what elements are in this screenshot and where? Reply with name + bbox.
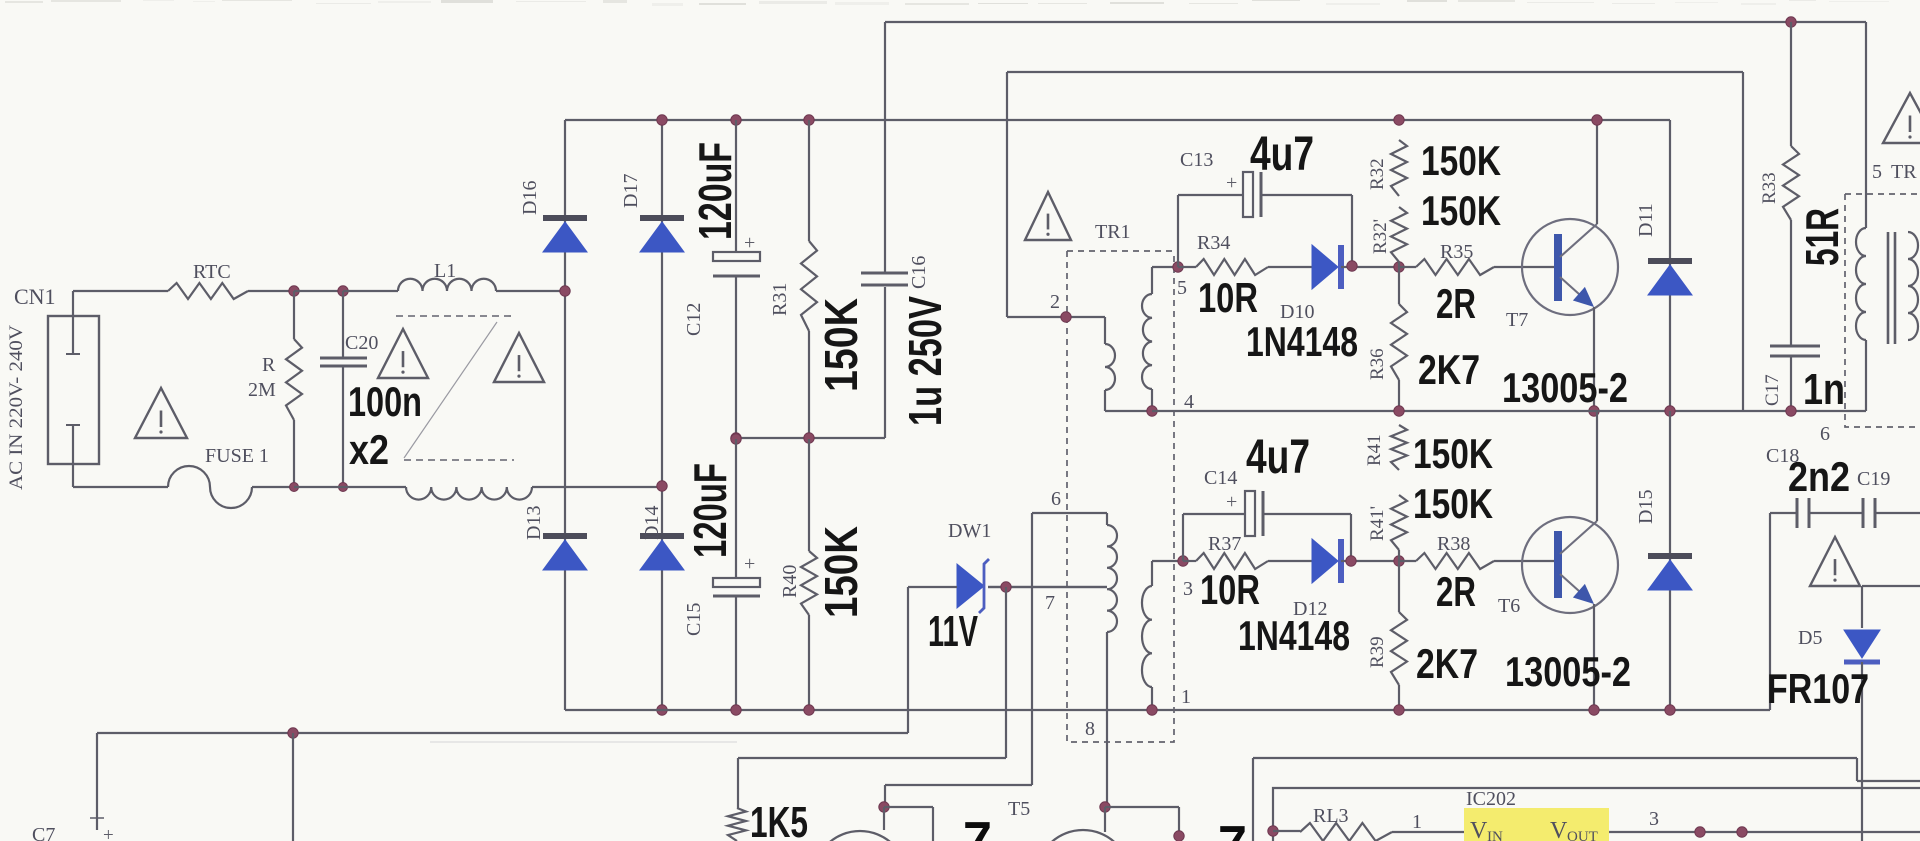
resistor R40 lead: [808, 439, 810, 551]
svg-text:150K: 150K: [1413, 480, 1493, 527]
svg-text:R38: R38: [1437, 533, 1470, 555]
svg-text:2K7: 2K7: [1416, 640, 1478, 687]
svg-text:RTC: RTC: [193, 261, 231, 283]
node pin1: [1147, 705, 1157, 715]
svg-text:13005-2: 13005-2: [1502, 364, 1628, 411]
svg-text:D5: D5: [1798, 627, 1822, 649]
node AC2 bridge: [657, 481, 667, 491]
wire pin7 tap: [988, 586, 1107, 588]
wire TR primary bottom: [1865, 340, 1867, 411]
svg-text:x2: x2: [349, 426, 389, 473]
capacitor C17 lead bottom: [1790, 356, 1792, 411]
resistor R31 lead: [808, 120, 810, 241]
capacitor C19 plates: [1862, 498, 1865, 528]
transistor T4 circle partial: [813, 831, 907, 841]
svg-text:T5: T5: [1008, 798, 1030, 820]
resistor R39: [1391, 612, 1407, 685]
svg-text:7: 7: [963, 812, 992, 841]
wire TR1 pin2: [1007, 316, 1105, 318]
wire pin6: [1032, 512, 1107, 514]
resistor R37: [1196, 553, 1268, 569]
resistor R36 lead: [1398, 267, 1400, 304]
TR primary winding: [1856, 228, 1866, 340]
node R2M bottom: [290, 483, 299, 492]
svg-text:R34: R34: [1197, 232, 1230, 254]
capacitor C14 right lead: [1263, 513, 1351, 515]
wire B upper: [1007, 71, 1743, 73]
svg-text:11V: 11V: [928, 607, 978, 656]
resistor R39 lead: [1398, 561, 1400, 612]
node T7 collector: [1592, 115, 1602, 125]
resistor R34: [1196, 259, 1268, 275]
svg-text:R37: R37: [1208, 533, 1241, 555]
wire DW1 anode: [908, 586, 957, 588]
svg-text:D17: D17: [620, 174, 642, 208]
resistor R33 lead: [1790, 22, 1792, 146]
capacitor C17 plates: [1770, 345, 1820, 348]
wire top bus: [565, 119, 1670, 121]
transistor T7 collector: [1560, 224, 1597, 257]
node base divider upper: [1394, 262, 1404, 272]
wire output top rail: [1253, 757, 1857, 759]
svg-text:1u 250V: 1u 250V: [899, 296, 951, 426]
svg-text:C17: C17: [1762, 374, 1783, 406]
resistor 1K5 lead: [737, 758, 739, 808]
node bottom-left: [288, 728, 298, 738]
node D15 bottom: [1665, 705, 1675, 715]
wire C20 to L1: [343, 290, 398, 292]
svg-text:R32': R32': [1370, 219, 1391, 254]
transformer TR dashed box: [1845, 194, 1920, 427]
transistor T7 circle: [1522, 219, 1618, 315]
CN1 pin 2 stub: [72, 426, 74, 487]
svg-text:R36: R36: [1367, 348, 1388, 380]
svg-text:4u7: 4u7: [1246, 431, 1310, 484]
wire bridge right vertical: [661, 120, 663, 710]
svg-text:2K7: 2K7: [1418, 346, 1480, 393]
wire R41 to R38: [1398, 550, 1400, 561]
node R39 bottom: [1394, 705, 1404, 715]
svg-text:1K5: 1K5: [750, 798, 808, 841]
wire L1 bottom to bridge: [532, 486, 662, 488]
TR1 winding 2-4: [1105, 344, 1115, 390]
svg-text:DW1: DW1: [948, 520, 991, 542]
capacitor C14 left lead: [1182, 514, 1184, 561]
capacitor C16 plates: [861, 272, 908, 275]
node R31 top: [804, 115, 814, 125]
capacitor C16 lead top: [884, 22, 886, 273]
svg-text:4u7: 4u7: [1250, 128, 1314, 181]
svg-text:6: 6: [1051, 488, 1061, 510]
svg-text:C13: C13: [1180, 149, 1213, 171]
svg-text:1N4148: 1N4148: [1238, 612, 1350, 659]
inductor L1 top winding: [398, 279, 496, 291]
node 5 junction: [1173, 262, 1183, 272]
node RL3 left: [1268, 826, 1278, 836]
resistor R40: [801, 551, 817, 615]
node midpoint R36: [1394, 406, 1404, 416]
svg-text:C20: C20: [345, 332, 378, 354]
svg-text:100n: 100n: [348, 378, 422, 425]
svg-text:3: 3: [1649, 808, 1659, 830]
resistor R 2M lead: [293, 291, 295, 339]
wire pin3 jog: [1151, 561, 1153, 586]
wire to L1 bottom: [294, 486, 406, 488]
warning triangle D5: [1810, 537, 1860, 586]
svg-text:+: +: [103, 825, 114, 841]
svg-text:13005-2: 13005-2: [1505, 648, 1631, 695]
wire R32 to R35: [1398, 262, 1400, 267]
wire CN1 bottom to fuse: [73, 486, 168, 488]
warning triangle after C20: [378, 329, 428, 378]
svg-text:2R: 2R: [1436, 568, 1476, 615]
svg-text:AC IN 220V- 240V: AC IN 220V- 240V: [6, 325, 27, 490]
node pin4: [1147, 406, 1157, 416]
wire mid stub down: [292, 733, 294, 841]
diode D5: [1844, 630, 1880, 658]
wire B descender: [1742, 72, 1744, 411]
node pin2: [1061, 312, 1071, 322]
diode D13: [543, 533, 587, 539]
node D17 top: [657, 115, 667, 125]
svg-text:51R: 51R: [1796, 208, 1848, 266]
transistor T7 base bar: [1554, 234, 1562, 301]
resistor R 2M lead bottom: [293, 420, 295, 487]
svg-text:R31: R31: [769, 283, 791, 316]
svg-text:+: +: [1226, 491, 1237, 513]
svg-text:1n: 1n: [1803, 365, 1845, 414]
wire A down to TR: [1865, 22, 1867, 228]
TR1 winding 6-8: [1107, 525, 1117, 632]
svg-text:C19: C19: [1857, 468, 1890, 490]
wire IC out: [1609, 831, 1920, 833]
svg-text:1: 1: [1181, 686, 1191, 708]
svg-text:D13: D13: [523, 506, 545, 540]
svg-text:120uF: 120uF: [684, 463, 736, 558]
wire RTC to node: [248, 290, 294, 292]
resistor RL3: [1300, 823, 1392, 841]
svg-text:D14: D14: [641, 506, 663, 540]
node D14 bottom: [657, 705, 667, 715]
wire A top rail: [885, 21, 1866, 23]
svg-text:5: 5: [1177, 277, 1187, 299]
svg-text:150K: 150K: [1413, 430, 1493, 477]
svg-text:OUT: OUT: [1567, 829, 1598, 841]
svg-text:120uF: 120uF: [689, 142, 741, 240]
capacitor C15 lead bottom: [735, 596, 737, 710]
wire D5 top: [1862, 585, 1920, 587]
wire DW1 left drop: [907, 587, 909, 733]
node C12 bottom: [731, 433, 741, 443]
svg-text:4: 4: [1184, 391, 1194, 413]
diode D17: [640, 215, 684, 221]
inductor L1 bottom winding: [406, 487, 532, 500]
TR1 winding 5-4: [1142, 294, 1152, 389]
wire left stub down: [96, 733, 98, 830]
x2 dashed mark lower: [404, 459, 514, 461]
TR1 winding 3-1: [1142, 586, 1152, 687]
svg-text:10R: 10R: [1198, 274, 1258, 321]
TR secondary winding: [1908, 232, 1918, 340]
wire D10 to node: [1341, 266, 1399, 268]
x2 diagonal mark: [404, 322, 497, 458]
wire pin2 jog: [1104, 317, 1106, 344]
node C15 top: [731, 434, 741, 444]
svg-text:R32: R32: [1367, 158, 1388, 190]
wire R37 to D12: [1268, 560, 1312, 562]
wire C18 rail: [1770, 512, 1796, 514]
svg-text:C15: C15: [683, 603, 705, 636]
resistor 1K5: [728, 808, 746, 841]
diode D16: [543, 215, 587, 221]
capacitor C14 plates: [1245, 491, 1255, 536]
resistor R35: [1416, 259, 1494, 275]
svg-text:C14: C14: [1204, 467, 1237, 489]
svg-text:7: 7: [1045, 592, 1055, 614]
svg-text:5: 5: [1872, 161, 1882, 183]
capacitor C15 lead: [735, 439, 737, 578]
svg-text:R35: R35: [1440, 241, 1473, 263]
warning triangle top right: [1883, 93, 1920, 143]
warning triangle 2 after C20: [494, 333, 544, 382]
resistor R32b: [1391, 207, 1407, 262]
IC202 yellow body: [1464, 808, 1609, 841]
node T4 collector: [879, 802, 889, 812]
capacitor C13 plates: [1243, 172, 1253, 217]
wire T4 right step: [884, 806, 933, 808]
capacitor C12 plates: [713, 252, 760, 261]
resistor R34 lead: [1178, 266, 1196, 268]
node out 2: [1737, 827, 1747, 837]
node C15 bottom: [731, 705, 741, 715]
diode D12: [1312, 539, 1338, 583]
wire node to C20 top: [294, 290, 343, 292]
svg-text:3: 3: [1183, 578, 1193, 600]
svg-text:D11: D11: [1635, 203, 1657, 237]
diode D15: [1648, 553, 1692, 559]
svg-text:2R: 2R: [1436, 280, 1476, 327]
resistor R38: [1416, 553, 1494, 569]
svg-text:C12: C12: [683, 303, 705, 336]
resistor R36: [1391, 304, 1407, 380]
svg-text:1N4148: 1N4148: [1246, 318, 1358, 365]
svg-text:1: 1: [1412, 811, 1422, 833]
svg-text:2: 2: [1050, 291, 1060, 313]
resistor R40 lead bottom: [808, 615, 810, 710]
svg-text:L1: L1: [434, 260, 456, 282]
svg-text:2M: 2M: [248, 379, 276, 401]
svg-text:C7: C7: [32, 824, 55, 841]
svg-text:FUSE 1: FUSE 1: [205, 445, 269, 467]
CN1 pin 1 stub: [72, 291, 74, 353]
transistor T6 emitter: [1560, 574, 1589, 600]
zener DW1: [957, 564, 984, 608]
capacitor C15 plates: [713, 578, 760, 587]
node AC1-R junction: [289, 286, 299, 296]
resistor R36 lead bottom: [1398, 380, 1400, 411]
svg-text:2n2: 2n2: [1788, 453, 1850, 500]
svg-text:R: R: [262, 354, 276, 376]
svg-text:T6: T6: [1498, 595, 1520, 617]
wire T5 stub: [1104, 807, 1106, 832]
node base divider lower: [1394, 556, 1404, 566]
wire C18-C19: [1809, 512, 1862, 514]
node D12 cathode: [1346, 556, 1356, 566]
node T5 right: [1174, 831, 1184, 841]
node C20 bottom: [339, 483, 348, 492]
svg-text:TR1: TR1: [1095, 221, 1131, 243]
wire R38 to T6 base: [1494, 560, 1554, 562]
node 3 junction: [1178, 556, 1188, 566]
capacitor C13 left lead: [1177, 195, 1179, 267]
capacitor C12 lead: [735, 120, 737, 252]
node R32 top: [1394, 115, 1404, 125]
svg-text:V: V: [1470, 818, 1488, 841]
node T6 emitter: [1589, 705, 1599, 715]
transistor T6 base bar: [1554, 531, 1562, 598]
wire midrail up to C16: [884, 287, 886, 438]
wire pin1: [1151, 687, 1153, 710]
node C12 top: [731, 115, 741, 125]
node R40 bottom: [804, 705, 814, 715]
resistor R39 lead bottom: [1398, 685, 1400, 710]
transistor T7 emitter: [1560, 277, 1589, 303]
svg-text:R40: R40: [779, 565, 801, 598]
diode D11: [1648, 258, 1692, 264]
capacitor C17 lead: [1790, 220, 1792, 345]
node out 1: [1695, 827, 1705, 837]
svg-text:RL3: RL3: [1313, 805, 1349, 827]
svg-text:D15: D15: [1635, 490, 1657, 524]
wire D5 bottom: [1861, 662, 1863, 841]
wire winding2 bottom: [1104, 390, 1106, 411]
svg-text:10R: 10R: [1200, 566, 1260, 613]
connector CN1 body: [48, 316, 99, 464]
svg-text:IC202: IC202: [1466, 788, 1516, 810]
transistor T6 collector: [1560, 521, 1597, 554]
capacitor C20 bottom lead: [342, 367, 344, 487]
svg-text:R39: R39: [1367, 636, 1388, 668]
wire half-bridge midpoint: [1152, 410, 1866, 412]
diode D11 wire: [1669, 120, 1671, 411]
wire mid rail: [736, 437, 885, 439]
capacitor C20 top lead: [342, 291, 344, 357]
node C20 top: [338, 286, 348, 296]
wire bottom bus: [565, 709, 1770, 711]
resistor RTC: [168, 283, 248, 299]
svg-text:+: +: [744, 232, 755, 254]
capacitor C13 right lead: [1261, 194, 1352, 196]
capacitor C18 plates: [1796, 498, 1799, 528]
wire C18 drop to bus: [1769, 513, 1771, 710]
wire RL3 to IC: [1392, 831, 1464, 833]
wire DW1 node drop: [1005, 587, 1007, 758]
wire B vertical: [1006, 72, 1008, 317]
svg-text:150K: 150K: [1421, 137, 1501, 184]
transistor T5 circle partial: [1036, 830, 1130, 841]
svg-text:TR: TR: [1891, 161, 1917, 183]
scan artifact band top: [5, 1, 43, 3]
wire zener to 1K5 run: [738, 757, 1006, 759]
svg-text:150K: 150K: [815, 298, 867, 392]
wire T4 stub: [883, 807, 885, 830]
wire D12 to node: [1341, 560, 1399, 562]
wire C19 right: [1875, 512, 1920, 514]
wire RL3 left lead: [1273, 830, 1300, 832]
diode D14: [640, 533, 684, 539]
svg-text:R41': R41': [1367, 506, 1388, 541]
svg-text:150K: 150K: [1421, 187, 1501, 234]
resistor R41: [1391, 425, 1407, 470]
wire left stub mark: [90, 817, 104, 819]
capacitor C12 lead bottom: [735, 276, 737, 438]
svg-text:C16: C16: [908, 256, 930, 289]
diode D10: [1312, 245, 1338, 289]
svg-text:T7: T7: [1506, 309, 1528, 331]
resistor R 2M: [286, 339, 302, 420]
wire CN1 top to RTC: [73, 290, 168, 292]
node D10 cathode: [1347, 261, 1357, 271]
x2 dashed mark upper: [396, 315, 512, 317]
TR core bars: [1887, 232, 1890, 344]
node AC1 bridge: [560, 286, 570, 296]
node DW1 right: [1001, 582, 1011, 592]
resistor R31 lead bottom: [808, 331, 810, 438]
resistor R31: [801, 241, 817, 331]
svg-text:D16: D16: [519, 181, 541, 215]
node T5 collector: [1100, 802, 1110, 812]
wire L1 top to bridge: [496, 290, 565, 292]
wire R34 to D10: [1268, 266, 1312, 268]
capacitor C20 plates: [320, 357, 367, 360]
wire pin5 jog: [1151, 267, 1153, 294]
node R33 top: [1786, 17, 1796, 27]
wire R35 to T7 base: [1494, 266, 1554, 268]
svg-text:8: 8: [1085, 718, 1095, 740]
IC202 box: [1273, 788, 1920, 841]
svg-text:IN: IN: [1487, 829, 1503, 841]
wire T5 right step: [1105, 806, 1179, 808]
svg-text:FR107: FR107: [1767, 665, 1869, 712]
warning triangle CN1 area: [135, 388, 187, 438]
wire DW1 cathode: [988, 586, 1107, 588]
wire pin8: [1106, 632, 1108, 807]
resistor R33: [1783, 146, 1799, 220]
node C17 bottom: [1786, 406, 1796, 416]
node D11 bottom: [1665, 406, 1675, 416]
svg-text:R41: R41: [1364, 434, 1385, 466]
wire bridge left vertical: [564, 120, 566, 710]
warning triangle TR1: [1025, 192, 1071, 240]
svg-text:6: 6: [1820, 423, 1830, 445]
svg-text:R33: R33: [1759, 172, 1780, 204]
transformer TR1 dashed box: [1067, 251, 1174, 742]
svg-text:+: +: [744, 553, 755, 575]
wire bottom-left rail: [97, 732, 908, 734]
node T7 emitter: [1589, 406, 1599, 416]
svg-text:+: +: [1226, 172, 1237, 194]
wire T4 collector path: [1031, 513, 1033, 785]
transistor T6 circle: [1522, 517, 1618, 613]
node R31 bottom: [804, 433, 814, 443]
fuse FUSE1: [168, 466, 252, 508]
resistor R37 lead: [1183, 560, 1196, 562]
resistor R41b: [1391, 495, 1407, 550]
wire output left drop: [1252, 758, 1254, 841]
wire fuse to R2M node: [252, 486, 294, 488]
scan artifact faint line: [430, 741, 737, 743]
resistor R32: [1391, 140, 1407, 196]
